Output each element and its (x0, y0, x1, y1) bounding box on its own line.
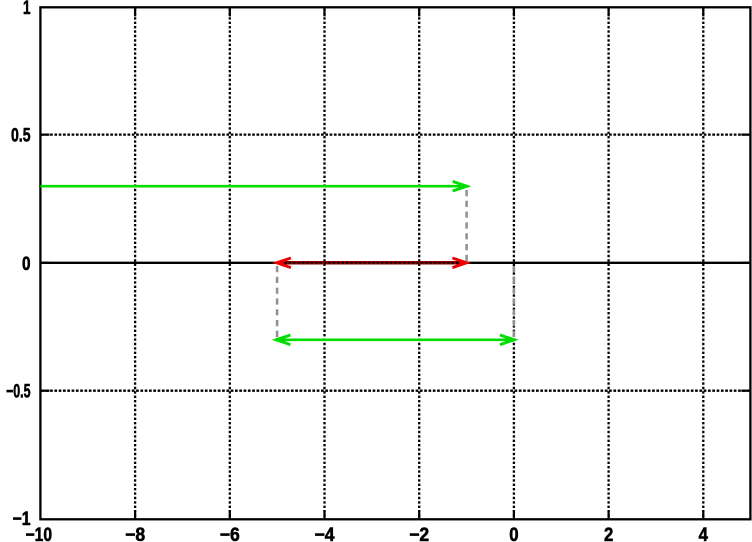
green arrow head right at (-1,0.3) (453, 181, 467, 191)
dashed gray connector x=-5 from y=0 to y=-0.3 (276, 266, 279, 337)
svg-text:−0.5: −0.5 (6, 382, 31, 403)
tick top x=2 (607, 8, 609, 16)
tick left y=0 (42, 262, 50, 264)
green arrow head right at (0,-0.3) (500, 335, 514, 345)
grid vline x=-6 (229, 8, 231, 518)
svg-text:−6: −6 (220, 525, 240, 542)
grid hline y=0.5 (42, 133, 750, 135)
tick left y=-0.5 (42, 390, 50, 392)
grid vline x=-4 (323, 8, 325, 518)
svg-text:1: 1 (23, 0, 31, 19)
tick top x=4 (702, 8, 704, 16)
x zero axis solid line y=0 (42, 262, 750, 264)
tick bottom x=0 (513, 510, 515, 518)
tick top x=-8 (134, 8, 136, 16)
tick bottom x=2 (607, 510, 609, 518)
svg-text:0: 0 (22, 254, 31, 275)
dark red double arrow shaft y=0 from x=-5 to x=-1 (278, 261, 466, 265)
grid vline x=4 (702, 8, 704, 518)
tick bottom x=-6 (229, 510, 231, 518)
tick bottom x=-2 (418, 510, 420, 518)
dashed gray connector x=0 from y=0 to y=-0.3 (513, 266, 516, 337)
tick bottom x=-8 (134, 510, 136, 518)
tick top x=-2 (418, 8, 420, 16)
tick left y=0.5 (42, 134, 50, 136)
svg-text:2: 2 (604, 525, 613, 542)
black dotted gridline overlay on red shaft (280, 262, 464, 264)
red arrow head right at (-1,0) (452, 258, 466, 268)
tick right y=0 (741, 262, 749, 264)
tick top x=-6 (229, 8, 231, 16)
svg-text:4: 4 (699, 525, 709, 542)
tick right y=0.5 (741, 134, 749, 136)
grid vline x=-8 (134, 8, 136, 518)
dashed gray connector x=-1 from y=0.3 to y=0 (465, 190, 468, 261)
grid vline x=0 (513, 8, 515, 518)
svg-text:0.5: 0.5 (11, 126, 31, 147)
svg-text:−2: −2 (409, 525, 429, 542)
grid vline x=2 (607, 8, 609, 518)
green arrow shaft y=0.3 from x=-10 to x=-1 (40, 185, 464, 188)
svg-text:0: 0 (509, 525, 518, 542)
grid hline y=-0.5 (42, 390, 750, 392)
tick top x=0 (513, 8, 515, 16)
svg-text:−4: −4 (315, 525, 335, 542)
grid vline x=-2 (418, 8, 420, 518)
tick right y=-0.5 (741, 390, 749, 392)
tick bottom x=-4 (323, 510, 325, 518)
green double arrow shaft y=-0.3 from x=-5 to x=0 (279, 338, 512, 341)
red arrow head left at (-5,0) (277, 258, 291, 268)
svg-text:−8: −8 (125, 525, 145, 542)
green arrow head left at (-5,-0.3) (276, 335, 290, 345)
tick top x=-4 (323, 8, 325, 16)
svg-text:−10: −10 (26, 525, 53, 542)
tick bottom x=4 (702, 510, 704, 518)
